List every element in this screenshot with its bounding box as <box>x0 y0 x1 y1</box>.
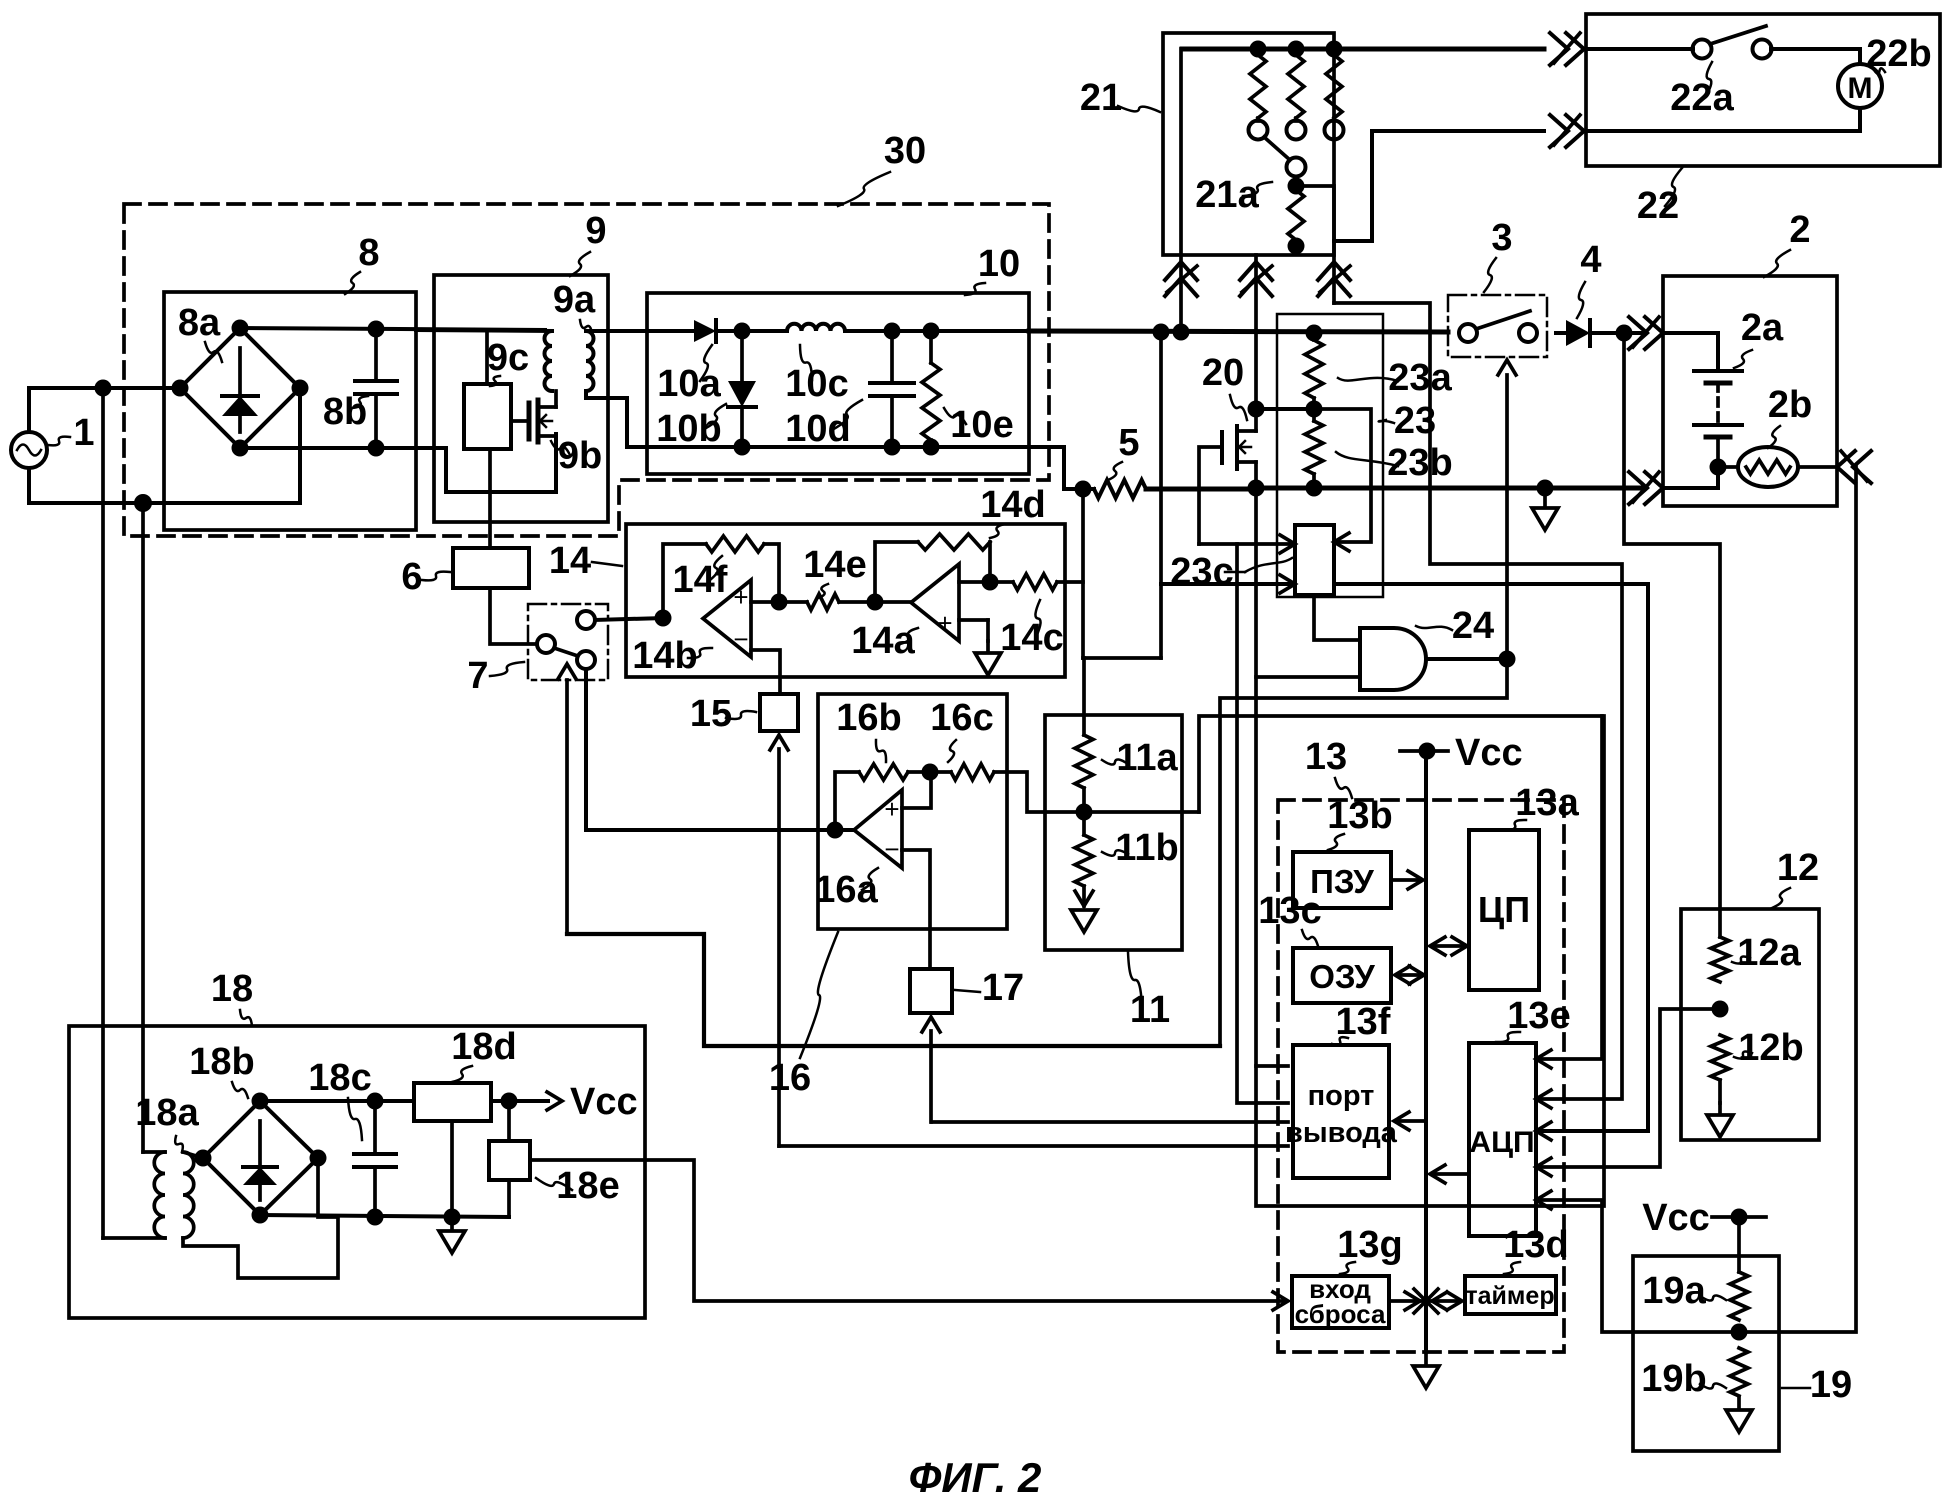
box 23 <box>1277 314 1383 597</box>
connector into 2 right <box>1853 451 1871 483</box>
wire 2 entry top <box>1663 333 1718 371</box>
resistor 14e <box>779 600 807 604</box>
opamp 16a <box>854 790 902 868</box>
ground 14a <box>975 641 1001 675</box>
node 10b bottom <box>734 439 751 456</box>
wire rail into primary <box>416 330 552 331</box>
wire main top rail <box>1029 331 1448 332</box>
and gate 24 <box>1360 628 1426 690</box>
wire ac top <box>29 388 181 432</box>
svg-text:30: 30 <box>884 130 926 172</box>
svg-text:Vcc: Vcc <box>570 1081 638 1123</box>
node 21 r1 <box>1250 41 1267 58</box>
connector into 2 bottom <box>1629 472 1647 504</box>
bridge 18b dots <box>252 1093 269 1110</box>
switch 22a <box>1693 40 1712 59</box>
node 18 vcc <box>501 1093 518 1110</box>
node 23ab <box>1306 401 1323 418</box>
switch 3 contacts <box>1459 324 1477 342</box>
svg-text:19b: 19b <box>1641 1358 1706 1400</box>
wire 23c bottom to and gate <box>1314 595 1360 640</box>
wire secondary top rail <box>586 329 694 333</box>
wire 14d right <box>988 542 992 582</box>
wire and input 2 <box>1256 675 1360 679</box>
svg-text:17: 17 <box>982 967 1024 1009</box>
wire 9c top <box>485 330 489 384</box>
bridge corner dots <box>232 320 249 337</box>
switch 7 contacts <box>537 635 555 653</box>
box 8 <box>164 292 416 530</box>
resistor 12b <box>1711 1035 1729 1080</box>
svg-text:ФИГ. 2: ФИГ. 2 <box>909 1454 1042 1501</box>
transformer 18a primary <box>154 1152 165 1238</box>
dashed box 30 <box>124 204 1049 536</box>
transistor 20 <box>1220 432 1224 463</box>
box 21 <box>1163 33 1334 255</box>
arrow 15 ctrl <box>770 735 788 750</box>
svg-text:10d: 10d <box>785 408 850 450</box>
wire and output down left <box>1220 659 1507 1046</box>
wire 21 second to 22 <box>1334 131 1544 241</box>
wire node5 down <box>1081 489 1085 658</box>
resistor 14c <box>990 580 1013 584</box>
wire 16b feedback <box>835 772 859 830</box>
node 10b top <box>734 323 751 340</box>
wire rail sense down <box>1159 333 1163 658</box>
svg-text:12: 12 <box>1777 847 1819 889</box>
box 2 <box>1663 276 1837 506</box>
wire 18 top rail <box>260 1099 414 1103</box>
selector 21a arm <box>1264 137 1290 160</box>
svg-text:8: 8 <box>358 232 379 274</box>
svg-text:11b: 11b <box>1115 827 1178 869</box>
node 20 source <box>1248 480 1265 497</box>
node 23b bottom <box>1306 480 1323 497</box>
connector riser right <box>1318 278 1350 296</box>
node rail a <box>1153 324 1170 341</box>
wire reset to timer <box>1389 1299 1460 1303</box>
wire 14a minus <box>959 580 990 584</box>
node 21 r2 <box>1288 41 1305 58</box>
ground 12b <box>1707 1103 1733 1137</box>
svg-text:24: 24 <box>1452 605 1494 647</box>
wire ac bottom to bridge <box>143 501 300 505</box>
node 21a bottom <box>1288 238 1305 255</box>
wire secondary top <box>183 1152 203 1158</box>
wire 9b source return <box>446 434 556 492</box>
resistor 5 <box>1083 487 1094 491</box>
svg-text:11a: 11a <box>1116 737 1178 779</box>
bridge rectifier 8a <box>180 328 300 448</box>
box 15 <box>760 694 798 731</box>
svg-text:−: − <box>733 624 748 654</box>
svg-text:10b: 10b <box>656 408 721 450</box>
arrow bus to port <box>1397 1119 1426 1123</box>
motor 22b <box>1838 64 1882 108</box>
dashed box 13 <box>1278 800 1564 1352</box>
wire mains left b <box>141 503 145 1152</box>
rom 13b <box>1293 852 1391 908</box>
node 10e top <box>923 323 940 340</box>
node 10e bottom <box>923 439 940 456</box>
box 9 <box>434 275 608 522</box>
wire drain to 23ab node <box>1256 407 1314 411</box>
wire 2 entry bottom <box>1663 467 1718 488</box>
svg-text:22: 22 <box>1637 185 1679 227</box>
svg-text:6: 6 <box>401 556 422 598</box>
resistor 21 r1 <box>1250 55 1266 118</box>
connector into 2 top <box>1629 317 1647 349</box>
node ac bottom <box>134 494 152 512</box>
riser 21 mid <box>1254 255 1258 409</box>
svg-text:19a: 19a <box>1642 1270 1706 1312</box>
svg-text:18a: 18a <box>135 1092 199 1134</box>
wire 18d to vcc <box>491 1099 548 1103</box>
svg-text:+: + <box>733 582 748 612</box>
svg-text:13a: 13a <box>1515 782 1579 824</box>
wire 10 top rail mid <box>742 329 787 333</box>
svg-text:9c: 9c <box>487 337 529 379</box>
transformer 18a secondary <box>183 1152 194 1238</box>
svg-text:9a: 9a <box>553 279 596 321</box>
thermistor 2b <box>1738 447 1798 487</box>
wire and output <box>1426 657 1507 661</box>
svg-text:4: 4 <box>1580 239 1601 281</box>
wire 11b down <box>1082 886 1086 906</box>
arrow 11 into adc <box>1536 1050 1551 1068</box>
wire 16c out <box>994 772 1199 812</box>
reset 13g <box>1292 1276 1389 1328</box>
arrow cpu to bus <box>1432 944 1463 948</box>
arrow into switch 3 <box>1498 360 1516 375</box>
wire battery sense <box>1624 333 1720 937</box>
svg-text:11: 11 <box>1130 989 1170 1031</box>
ground 11b <box>1071 910 1097 932</box>
svg-text:9: 9 <box>585 210 606 252</box>
wire and output up to switch 3 <box>1505 375 1509 659</box>
arrow 12 into adc <box>1536 1158 1551 1176</box>
transformer 9a secondary <box>586 331 594 391</box>
wire 18e bottom <box>507 1180 511 1217</box>
connector 21-22 bottom <box>1550 115 1568 147</box>
wire 22 top <box>1586 47 1693 51</box>
arrow 17 ctrl <box>922 1017 940 1032</box>
ram 13c <box>1293 948 1391 1003</box>
svg-text:сброса: сброса <box>1295 1299 1386 1329</box>
resistor 16c <box>951 764 994 780</box>
wire mains left a <box>101 388 105 1238</box>
resistor 14d <box>918 534 990 550</box>
bus 13 <box>1424 751 1428 1352</box>
node rail b <box>1173 324 1190 341</box>
svg-text:14d: 14d <box>980 484 1045 526</box>
svg-text:23a: 23a <box>1388 357 1452 399</box>
resistor 19b <box>1730 1348 1748 1396</box>
node 14b plus <box>771 594 788 611</box>
wire 11a link <box>1082 788 1086 835</box>
box 10 <box>647 293 1029 474</box>
svg-text:2: 2 <box>1789 209 1810 251</box>
resistor 12a <box>1711 937 1729 982</box>
wire vcc to 19a <box>1737 1217 1741 1272</box>
svg-text:20: 20 <box>1202 352 1244 394</box>
node 14b out <box>655 610 672 627</box>
box 12 <box>1681 909 1819 1140</box>
wire 11 sense bus <box>1199 487 1604 1206</box>
svg-text:порт: порт <box>1308 1080 1375 1112</box>
svg-text:14f: 14f <box>673 559 728 601</box>
ground 19b <box>1726 1398 1752 1432</box>
wire 23ab node to 23c right <box>1314 409 1371 542</box>
svg-text:вывода: вывода <box>1285 1117 1398 1149</box>
wire 22 to motor <box>1771 49 1860 64</box>
svg-text:12b: 12b <box>1738 1027 1803 1069</box>
svg-text:1: 1 <box>73 412 94 454</box>
wire 10 bottom to node5 <box>1029 447 1083 489</box>
box 17 <box>910 969 952 1013</box>
wire 14d feedback <box>875 542 918 602</box>
node 20 drain <box>1248 401 1265 418</box>
capacitor 10d <box>890 331 894 383</box>
node 18c bottom <box>367 1209 384 1226</box>
node 14a out <box>867 594 884 611</box>
node and output <box>1499 651 1516 668</box>
svg-text:13b: 13b <box>1327 795 1392 837</box>
node 8b bottom <box>368 440 385 457</box>
wire 14f right <box>764 544 779 602</box>
node mid rail gnd <box>1537 480 1554 497</box>
arrow switch 7 ctrl <box>558 664 576 679</box>
node 21 r3 <box>1326 41 1343 58</box>
vcc left <box>547 1092 562 1110</box>
wire ctrl 15 to port <box>779 1144 1288 1148</box>
wire 12 node to adc <box>1541 1009 1720 1167</box>
arrow rail sense into adc <box>1536 1122 1551 1140</box>
wire 20 gate <box>1199 447 1222 544</box>
box 11 <box>1045 715 1182 950</box>
adc 13e <box>1469 1043 1536 1236</box>
svg-text:21: 21 <box>1080 77 1122 119</box>
node 19 <box>1731 1324 1748 1341</box>
regulator 18d <box>414 1083 491 1121</box>
svg-text:5: 5 <box>1118 422 1139 464</box>
svg-text:13e: 13e <box>1507 995 1570 1037</box>
wire 18e reset line <box>530 1160 1283 1301</box>
wire 18 bottom rail <box>260 1215 509 1217</box>
svg-text:+: + <box>884 794 899 824</box>
diode 10a <box>694 320 716 342</box>
svg-text:16c: 16c <box>930 697 993 739</box>
wire 11 sense into adc <box>1541 716 1602 1059</box>
arrow into 23c left top <box>1280 535 1295 553</box>
wire 9c down to 6 <box>488 449 492 548</box>
node 18c top <box>367 1093 384 1110</box>
svg-text:10c: 10c <box>785 363 848 405</box>
wire 14b minus to 15 <box>751 650 780 694</box>
svg-text:ОЗУ: ОЗУ <box>1309 958 1375 995</box>
wire 16a minus to 17 <box>902 850 930 969</box>
cpu 13a <box>1469 830 1539 990</box>
arrow w21 into adc <box>1536 1090 1551 1108</box>
svg-text:23b: 23b <box>1387 442 1452 484</box>
resistor 19a <box>1730 1272 1748 1320</box>
box 18 <box>69 1026 645 1318</box>
wire 14a out <box>875 600 911 604</box>
svg-text:16: 16 <box>769 1057 811 1099</box>
contact 21 c3 <box>1325 121 1344 140</box>
svg-text:18: 18 <box>211 968 253 1010</box>
box 19 <box>1633 1256 1779 1451</box>
svg-text:7: 7 <box>467 655 488 697</box>
wire ctrl 17 to port <box>932 1120 1288 1124</box>
port 13f <box>1293 1045 1389 1178</box>
wire 10 bottom rail <box>627 445 1029 449</box>
wire secondary bottom jog <box>183 1158 338 1278</box>
svg-text:13: 13 <box>1305 736 1347 778</box>
wire ac bottom <box>29 468 143 503</box>
node 14a minus <box>982 574 999 591</box>
wire 7 out <box>595 618 663 620</box>
wire secondary bottom jog <box>586 391 656 447</box>
diode 10b <box>740 331 744 381</box>
arrow adc to bus <box>1434 1172 1469 1176</box>
node 12 <box>1712 1001 1729 1018</box>
node 10d top <box>884 323 901 340</box>
resistor 14f <box>706 536 764 552</box>
wire bridge top rail <box>240 328 545 330</box>
ground 13 <box>1413 1354 1439 1388</box>
contact 21 c1 <box>1249 121 1268 140</box>
wire thermistor sense <box>1541 467 1856 1332</box>
svg-text:18d: 18d <box>451 1026 516 1068</box>
svg-text:2a: 2a <box>1741 307 1784 349</box>
ground mid rail <box>1532 496 1558 530</box>
resistor 10e <box>929 331 933 363</box>
resistor 16b <box>859 764 908 780</box>
node 5 left <box>1075 481 1092 498</box>
timer 13d <box>1465 1276 1556 1314</box>
node ac top <box>95 380 112 397</box>
opamp 14a <box>911 564 959 641</box>
switch box 7 <box>528 604 608 680</box>
opamp 14b <box>703 580 751 657</box>
wire divider tie <box>1083 656 1161 660</box>
node 11 <box>1076 804 1093 821</box>
svg-text:22b: 22b <box>1866 33 1931 75</box>
arrow thermistor into adc <box>1536 1191 1551 1209</box>
contact 21 c2 <box>1287 121 1306 140</box>
svg-text:ЦП: ЦП <box>1478 889 1530 930</box>
wire bridge right vertex down <box>298 388 302 503</box>
wire rail sense right <box>1334 584 1648 1131</box>
arrow reset into 13g <box>1273 1292 1288 1310</box>
svg-text:10: 10 <box>978 243 1020 285</box>
transistor 9b <box>527 403 532 439</box>
wire mid rail <box>1256 486 1643 491</box>
driver 23c <box>1295 525 1334 595</box>
wire 18e top <box>507 1101 511 1141</box>
svg-text:9b: 9b <box>558 435 602 477</box>
battery 2a <box>1694 369 1742 373</box>
wire gate line to 23c <box>1199 542 1290 546</box>
node 16a in <box>827 822 844 839</box>
sensor 18e <box>489 1141 530 1180</box>
inductor 10c <box>787 324 845 331</box>
svg-text:10e: 10e <box>950 404 1013 446</box>
wire 7 to 16a <box>586 669 835 830</box>
node 18 gnd <box>444 1209 461 1226</box>
box 6 <box>453 548 529 588</box>
wire and to switch7 ctrl <box>567 934 1220 1046</box>
svg-text:18c: 18c <box>308 1057 371 1099</box>
resistor 21 r2 <box>1288 55 1304 118</box>
svg-text:Vcc: Vcc <box>1455 732 1523 774</box>
connector 21-22 top <box>1550 33 1568 65</box>
node 23a top <box>1306 325 1323 342</box>
resistor 11a <box>1075 735 1093 788</box>
wire port out b <box>1237 544 1288 1103</box>
svg-text:15: 15 <box>690 693 732 735</box>
node 21a <box>1288 178 1305 195</box>
wire 14a plus gnd <box>959 618 988 622</box>
svg-text:12a: 12a <box>1737 932 1801 974</box>
wire 22 motor return <box>1586 108 1860 131</box>
svg-text:22a: 22a <box>1670 77 1734 119</box>
bus 21 to 22 <box>1182 47 1544 52</box>
connector riser mid <box>1240 278 1272 296</box>
switch box 3 <box>1448 295 1547 357</box>
wire 16a plus <box>902 772 931 808</box>
node 16bc <box>922 764 939 781</box>
node 10d bottom <box>884 439 901 456</box>
svg-text:таймер: таймер <box>1465 1282 1554 1310</box>
svg-text:13g: 13g <box>1337 1224 1402 1266</box>
wire 6 to switch 7 <box>490 588 537 644</box>
resistor 23a <box>1312 333 1316 340</box>
svg-text:19: 19 <box>1810 1364 1852 1406</box>
wire 21a tap right <box>1296 186 1334 303</box>
svg-text:АЦП: АЦП <box>1469 1126 1534 1159</box>
svg-text:+: + <box>937 608 952 638</box>
wire w21 sense <box>1334 303 1622 1099</box>
wire port out a <box>1256 1064 1288 1068</box>
node 8b top <box>368 321 385 338</box>
arrow ram to bus <box>1397 973 1420 977</box>
svg-text:2b: 2b <box>1768 384 1812 426</box>
svg-text:3: 3 <box>1491 217 1512 259</box>
resistor 11b <box>1075 835 1093 886</box>
resistor 21a lower <box>1288 190 1304 240</box>
resistor 21 r3 <box>1326 55 1342 118</box>
wire 14b plus <box>751 600 779 604</box>
svg-text:M: M <box>1848 72 1873 105</box>
svg-text:16b: 16b <box>836 697 901 739</box>
svg-text:14c: 14c <box>1000 617 1063 659</box>
capacitor 8b <box>374 329 378 381</box>
svg-text:13c: 13c <box>1258 890 1321 932</box>
wire 18d gnd <box>450 1121 454 1217</box>
box 14 <box>626 524 1065 677</box>
diode 4 <box>1556 331 1566 335</box>
control block 9c <box>464 384 511 449</box>
svg-text:−: − <box>884 834 899 864</box>
arrow rom to bus <box>1391 878 1418 882</box>
capacitor 18c <box>373 1101 377 1154</box>
svg-text:Vcc: Vcc <box>1642 1197 1710 1239</box>
wire 14b feedback <box>663 544 706 618</box>
arrow into 23c right <box>1334 533 1349 551</box>
wire 10 rail after coil <box>845 329 1029 333</box>
